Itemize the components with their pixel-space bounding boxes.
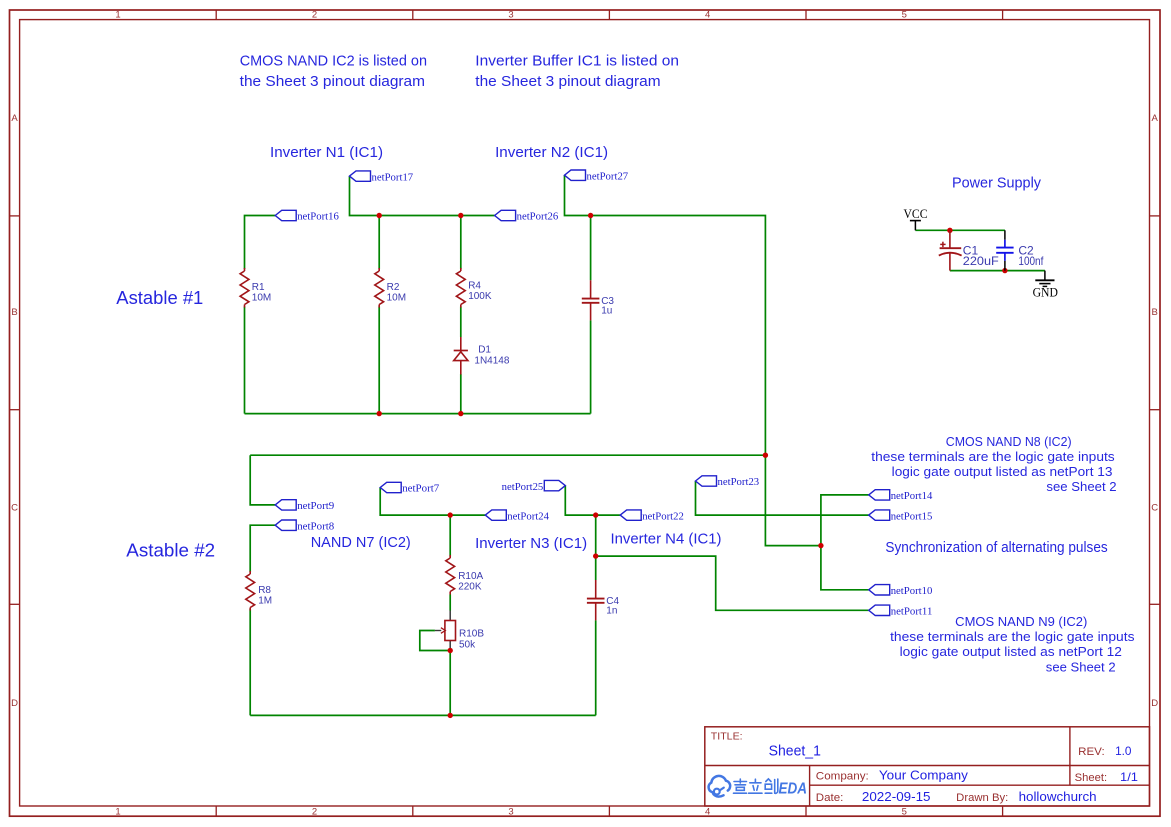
net port netPort27 xyxy=(565,170,629,182)
wire xyxy=(449,595,451,611)
wire xyxy=(565,486,620,515)
wire xyxy=(378,307,380,414)
svg-text:100K: 100K xyxy=(468,291,492,302)
svg-text:10M: 10M xyxy=(252,293,271,304)
svg-text:see Sheet 2: see Sheet 2 xyxy=(1046,480,1116,494)
net port netPort22 xyxy=(620,510,684,522)
wire xyxy=(250,454,765,456)
svg-text:220K: 220K xyxy=(458,582,482,593)
wire xyxy=(595,620,597,715)
svg-text:Inverter Buffer IC1 is listed: Inverter Buffer IC1 is listed on xyxy=(475,53,679,70)
junction xyxy=(458,411,463,416)
svg-text:R4: R4 xyxy=(468,281,481,292)
svg-text:A: A xyxy=(1152,113,1159,124)
net port netPort9 xyxy=(275,500,335,512)
svg-text:1: 1 xyxy=(115,10,120,21)
wire xyxy=(590,320,592,413)
svg-text:the Sheet 3 pinout diagram: the Sheet 3 pinout diagram xyxy=(475,73,660,90)
svg-text:TITLE:: TITLE: xyxy=(711,731,743,743)
svg-text:Astable #2: Astable #2 xyxy=(126,541,215,561)
svg-text:logic gate output listed as ne: logic gate output listed as netPort 13 xyxy=(892,465,1113,479)
junction xyxy=(947,228,952,233)
svg-text:2: 2 xyxy=(312,10,317,21)
net port netPort24 xyxy=(485,510,549,522)
svg-text:netPort15: netPort15 xyxy=(891,510,933,522)
net port netPort17 xyxy=(350,171,414,183)
svg-text:2: 2 xyxy=(312,806,317,817)
svg-text:CMOS NAND N8 (IC2): CMOS NAND N8 (IC2) xyxy=(946,435,1072,449)
svg-text:100nf: 100nf xyxy=(1018,254,1044,268)
resistor R8 1M xyxy=(246,571,272,611)
resistor R2 10M xyxy=(375,268,406,308)
svg-text:netPort25: netPort25 xyxy=(502,481,544,493)
svg-text:VCC: VCC xyxy=(904,206,928,221)
svg-text:R10B: R10B xyxy=(459,629,484,640)
svg-text:Inverter N3 (IC1): Inverter N3 (IC1) xyxy=(475,535,587,552)
net port netPort7 xyxy=(380,482,440,494)
svg-text:Astable #1: Astable #1 xyxy=(116,288,203,308)
svg-text:see Sheet 2: see Sheet 2 xyxy=(1046,660,1116,674)
potentiometer R10B 50k xyxy=(435,611,484,651)
net port netPort11 xyxy=(869,605,933,617)
svg-text:netPort26: netPort26 xyxy=(517,211,559,223)
diode D1 1N4148 xyxy=(454,337,510,375)
wire xyxy=(460,374,462,414)
svg-text:netPort10: netPort10 xyxy=(891,585,933,597)
resistor R1 10M xyxy=(240,268,271,308)
resistor R10A 220K xyxy=(446,555,484,595)
svg-text:Inverter N4 (IC1): Inverter N4 (IC1) xyxy=(611,530,722,547)
junction xyxy=(458,213,463,218)
svg-text:netPort23: netPort23 xyxy=(718,476,760,488)
svg-text:NAND N7 (IC2): NAND N7 (IC2) xyxy=(311,534,411,551)
svg-text:CMOS NAND IC2 is listed on: CMOS NAND IC2 is listed on xyxy=(240,53,427,70)
svg-text:these terminals are the logic: these terminals are the logic gate input… xyxy=(890,630,1134,644)
svg-text:1n: 1n xyxy=(606,605,617,616)
svg-text:R2: R2 xyxy=(387,282,400,293)
wire xyxy=(460,216,462,270)
wire xyxy=(595,515,597,580)
svg-text:D: D xyxy=(1151,698,1158,709)
wire xyxy=(420,631,450,651)
svg-text:Sheet:: Sheet: xyxy=(1075,772,1107,784)
svg-text:1.0: 1.0 xyxy=(1115,744,1132,758)
svg-text:netPort11: netPort11 xyxy=(891,606,933,618)
junction xyxy=(593,553,598,558)
svg-text:CMOS NAND N9 (IC2): CMOS NAND N9 (IC2) xyxy=(955,615,1087,629)
capacitor C3 1u xyxy=(582,280,615,320)
svg-text:Company:: Company: xyxy=(816,771,869,783)
capacitor C2 100nf xyxy=(996,230,1044,270)
title block xyxy=(705,727,1150,806)
svg-text:1N4148: 1N4148 xyxy=(474,355,509,366)
svg-text:netPort16: netPort16 xyxy=(297,211,339,223)
svg-text:netPort9: netPort9 xyxy=(297,500,335,512)
svg-text:netPort14: netPort14 xyxy=(891,490,933,502)
wire xyxy=(244,307,246,414)
svg-text:netPort17: netPort17 xyxy=(372,171,414,183)
svg-text:Drawn By:: Drawn By: xyxy=(956,792,1008,804)
svg-text:B: B xyxy=(11,307,17,318)
wire xyxy=(696,481,869,515)
svg-text:1M: 1M xyxy=(258,596,272,607)
wire xyxy=(596,556,869,610)
svg-text:netPort7: netPort7 xyxy=(402,483,440,495)
svg-text:4: 4 xyxy=(705,806,710,817)
svg-text:EDA: EDA xyxy=(779,781,808,798)
svg-text:Inverter N1 (IC1): Inverter N1 (IC1) xyxy=(270,144,383,161)
junction xyxy=(377,411,382,416)
net port netPort25 xyxy=(502,480,566,492)
wire xyxy=(245,413,591,415)
wire xyxy=(250,525,275,572)
svg-text:Inverter N2 (IC1): Inverter N2 (IC1) xyxy=(495,144,608,161)
net port netPort10 xyxy=(869,585,933,597)
wire xyxy=(590,216,592,281)
svg-text:the Sheet 3 pinout diagram: the Sheet 3 pinout diagram xyxy=(240,73,425,90)
wire xyxy=(821,495,869,590)
svg-text:A: A xyxy=(11,113,18,124)
wire xyxy=(449,648,451,715)
junction xyxy=(448,713,453,718)
svg-text:50k: 50k xyxy=(459,640,476,651)
svg-text:C: C xyxy=(11,502,18,513)
wire xyxy=(460,307,462,338)
svg-text:Sheet_1: Sheet_1 xyxy=(769,743,821,760)
wire xyxy=(565,175,766,455)
net port netPort23 xyxy=(696,476,760,488)
junction xyxy=(763,453,768,458)
svg-text:1u: 1u xyxy=(601,305,612,316)
svg-text:REV:: REV: xyxy=(1078,746,1105,758)
junction xyxy=(593,512,598,517)
wire xyxy=(250,455,275,505)
svg-text:220uF: 220uF xyxy=(963,254,999,268)
svg-text:B: B xyxy=(1152,307,1158,318)
svg-text:netPort27: netPort27 xyxy=(587,170,629,182)
svg-text:GND: GND xyxy=(1033,284,1058,299)
wire xyxy=(245,216,276,270)
net port netPort26 xyxy=(495,210,559,222)
logo JLC EDA xyxy=(709,776,807,798)
svg-text:these terminals are the logic: these terminals are the logic gate input… xyxy=(871,450,1114,464)
svg-text:R10A: R10A xyxy=(458,571,483,582)
svg-text:R8: R8 xyxy=(258,585,271,596)
svg-text:3: 3 xyxy=(508,806,513,817)
svg-text:Synchronization of alternating: Synchronization of alternating pulses xyxy=(885,539,1107,556)
svg-text:hollowchurch: hollowchurch xyxy=(1019,789,1097,804)
svg-text:Power Supply: Power Supply xyxy=(952,175,1041,192)
svg-text:R1: R1 xyxy=(252,282,265,293)
svg-text:5: 5 xyxy=(902,806,907,817)
junction xyxy=(818,543,823,548)
wire xyxy=(378,216,380,270)
net port netPort15 xyxy=(869,510,933,522)
wire xyxy=(449,515,451,556)
junction xyxy=(588,213,593,218)
svg-text:1: 1 xyxy=(115,806,120,817)
svg-text:10M: 10M xyxy=(387,293,406,304)
power flag VCC xyxy=(904,206,928,230)
svg-text:Your Company: Your Company xyxy=(879,768,969,783)
ground GND xyxy=(1033,271,1058,300)
svg-text:netPort24: netPort24 xyxy=(507,510,549,522)
svg-text:3: 3 xyxy=(508,10,513,21)
svg-text:4: 4 xyxy=(705,10,710,21)
svg-text:netPort22: netPort22 xyxy=(642,510,684,522)
svg-text:5: 5 xyxy=(902,10,907,21)
net port netPort14 xyxy=(869,490,933,502)
svg-text:2022-09-15: 2022-09-15 xyxy=(862,789,931,804)
net port netPort8 xyxy=(275,520,335,532)
wire xyxy=(350,176,495,215)
svg-text:logic gate output listed as ne: logic gate output listed as netPort 12 xyxy=(900,645,1122,659)
net port netPort16 xyxy=(275,210,339,222)
wire xyxy=(915,229,1005,231)
wire xyxy=(380,488,485,516)
resistor R4 100K xyxy=(456,268,491,308)
svg-text:netPort8: netPort8 xyxy=(297,520,335,532)
wire xyxy=(250,714,596,716)
svg-text:1/1: 1/1 xyxy=(1120,770,1138,784)
capacitor C1 220uF polarized xyxy=(939,230,999,270)
junction xyxy=(448,648,453,653)
capacitor C4 1n xyxy=(587,580,620,620)
svg-text:D1: D1 xyxy=(478,345,491,356)
svg-text:D: D xyxy=(11,698,18,709)
wire xyxy=(249,609,251,715)
junction xyxy=(1002,268,1007,273)
svg-text:Date:: Date: xyxy=(816,792,844,804)
wire xyxy=(950,270,1045,272)
svg-text:C: C xyxy=(1151,502,1158,513)
junction xyxy=(448,512,453,517)
junction xyxy=(377,213,382,218)
wire xyxy=(765,455,821,545)
